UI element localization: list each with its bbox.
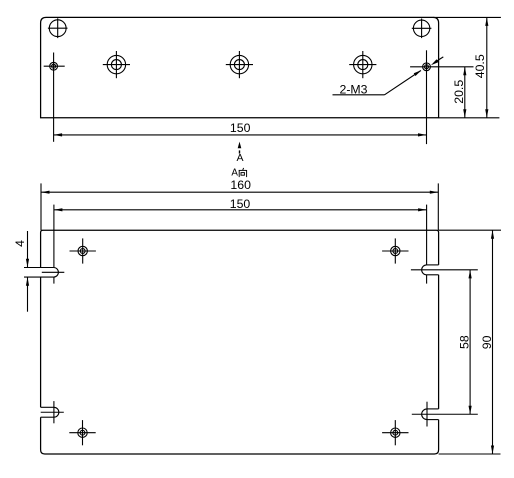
dim 4 (13, 231, 29, 312)
svg-text:150: 150 (230, 121, 251, 135)
plate outline bottom view: bottom edge and lower sides (41, 417, 439, 454)
label A xiang (view A) (231, 168, 246, 179)
slot lower-right (412, 402, 478, 427)
dim 58 (457, 270, 471, 414)
dim 20.5 (452, 67, 466, 118)
plate outline bottom view: left edge middle (40, 277, 42, 407)
svg-text:4: 4 (13, 240, 27, 247)
extension line from right M3 hole to 20.5 dim (410, 66, 473, 68)
dim 90 (439, 230, 501, 454)
corner tooling mark top-left (48, 18, 68, 38)
dim 40.5 (433, 17, 501, 117)
M3 hole left (44, 62, 65, 70)
hole target 2 (226, 51, 253, 78)
plate outline bottom view: top edge and upper sides (41, 230, 439, 267)
dim 160 bottom view (41, 183, 438, 230)
svg-text:A: A (236, 152, 243, 164)
svg-text:150: 150 (230, 197, 251, 211)
corner hole bottom-right (382, 420, 408, 445)
extension line from right M3 hole down to 150 dim (426, 50, 428, 144)
svg-text:58: 58 (457, 335, 471, 349)
corner hole top-left (70, 238, 96, 263)
svg-text:A: A (231, 168, 238, 179)
svg-text:20.5: 20.5 (452, 80, 466, 104)
svg-text:40.5: 40.5 (473, 54, 487, 78)
slot upper-right (411, 265, 478, 275)
svg-text:160: 160 (230, 178, 251, 192)
corner hole top-right (382, 238, 408, 263)
leader 2-M3 (333, 57, 444, 97)
svg-text:90: 90 (480, 335, 494, 349)
extension line from left M3 hole down to 150 dim (53, 53, 55, 142)
plate outline bottom view: right edge middle (438, 275, 440, 409)
hole target 3 (349, 51, 376, 78)
dim 150 top view (54, 121, 427, 136)
slot upper-left (24, 268, 64, 278)
view arrow A (236, 142, 243, 164)
corner hole bottom-left (69, 420, 95, 445)
corner tooling mark top-right (412, 19, 432, 39)
hole target 1 (103, 51, 130, 78)
plate outline top view (41, 17, 439, 117)
slot lower-left (41, 401, 64, 423)
M3 hole right (423, 63, 431, 71)
dim 150 bottom view (54, 197, 427, 284)
